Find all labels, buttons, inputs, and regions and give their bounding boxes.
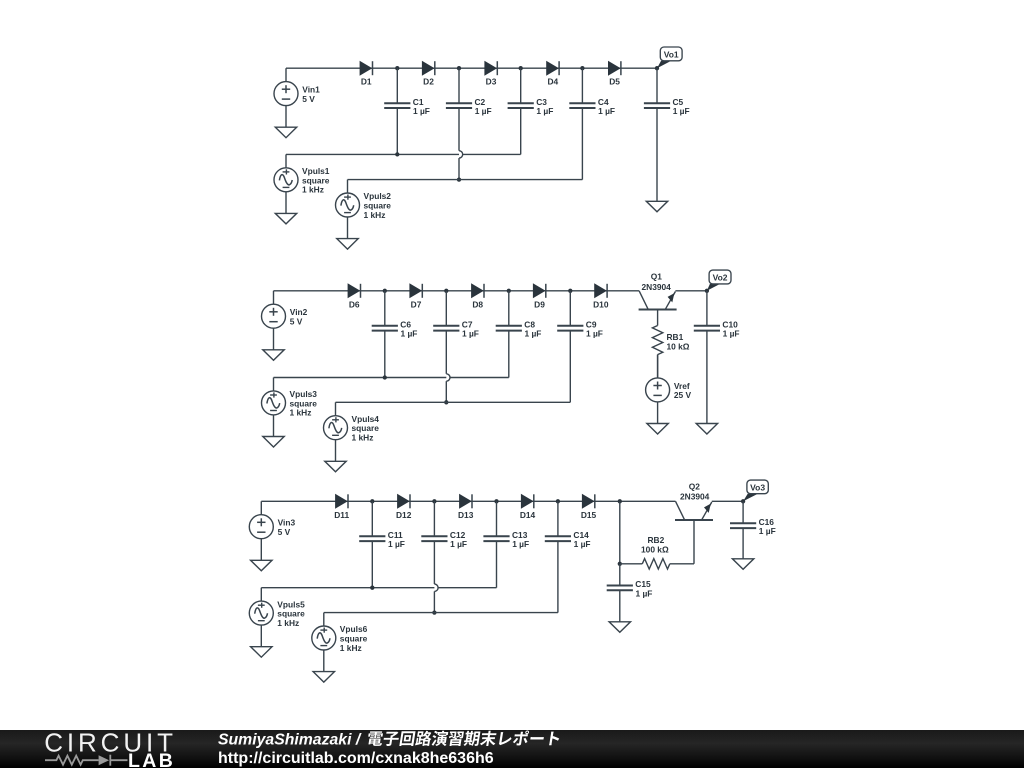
svg-text:1 kHz: 1 kHz: [340, 643, 362, 653]
svg-text:D10: D10: [593, 299, 609, 309]
svg-text:D7: D7: [411, 299, 422, 309]
svg-text:RB2: RB2: [648, 535, 665, 545]
svg-text:2N3904: 2N3904: [680, 491, 710, 501]
svg-text:http://circuitlab.com/cxnak8he: http://circuitlab.com/cxnak8he636h6: [218, 750, 494, 767]
svg-text:1 µF: 1 µF: [759, 526, 776, 536]
svg-text:10 kΩ: 10 kΩ: [667, 342, 690, 352]
svg-text:1 µF: 1 µF: [574, 539, 591, 549]
svg-text:1 kHz: 1 kHz: [364, 210, 386, 220]
svg-text:5 V: 5 V: [278, 527, 291, 537]
svg-text:1 µF: 1 µF: [462, 329, 479, 339]
svg-text:Vo2: Vo2: [713, 273, 728, 283]
svg-text:D5: D5: [609, 77, 620, 87]
svg-text:SumiyaShimazaki /: SumiyaShimazaki /: [218, 732, 362, 749]
svg-text:D14: D14: [520, 510, 536, 520]
svg-text:1 µF: 1 µF: [636, 588, 653, 598]
svg-text:LAB: LAB: [128, 750, 175, 768]
svg-text:1 µF: 1 µF: [536, 106, 553, 116]
svg-text:1 µF: 1 µF: [673, 106, 690, 116]
svg-text:100 kΩ: 100 kΩ: [641, 545, 669, 555]
svg-text:1 kHz: 1 kHz: [277, 618, 299, 628]
svg-text:Vo1: Vo1: [664, 49, 679, 59]
svg-text:1 µF: 1 µF: [388, 539, 405, 549]
svg-text:1 µF: 1 µF: [586, 329, 603, 339]
svg-text:D1: D1: [361, 77, 372, 87]
svg-text:25 V: 25 V: [674, 390, 692, 400]
svg-text:D9: D9: [534, 299, 545, 309]
svg-text:1 kHz: 1 kHz: [290, 408, 312, 418]
svg-text:1 kHz: 1 kHz: [302, 185, 324, 195]
svg-text:Q1: Q1: [651, 272, 663, 282]
svg-text:1 µF: 1 µF: [413, 106, 430, 116]
svg-text:D2: D2: [423, 77, 434, 87]
svg-text:D3: D3: [486, 77, 497, 87]
svg-text:1 µF: 1 µF: [512, 539, 529, 549]
svg-text:D4: D4: [547, 77, 558, 87]
svg-text:1 µF: 1 µF: [598, 106, 615, 116]
svg-text:Q2: Q2: [689, 481, 701, 491]
svg-text:1 µF: 1 µF: [401, 329, 418, 339]
svg-text:D12: D12: [396, 510, 412, 520]
svg-text:D11: D11: [334, 510, 349, 520]
svg-text:2N3904: 2N3904: [642, 282, 672, 292]
svg-text:D8: D8: [472, 299, 483, 309]
svg-text:1 kHz: 1 kHz: [352, 433, 374, 443]
svg-text:1 µF: 1 µF: [723, 329, 740, 339]
svg-text:D15: D15: [581, 510, 597, 520]
svg-text:1 µF: 1 µF: [450, 539, 467, 549]
svg-text:5 V: 5 V: [302, 94, 315, 104]
svg-text:1 µF: 1 µF: [525, 329, 542, 339]
svg-text:Vo3: Vo3: [750, 482, 765, 492]
svg-text:5 V: 5 V: [290, 317, 303, 327]
svg-text:D13: D13: [458, 510, 474, 520]
svg-text:D6: D6: [349, 299, 360, 309]
svg-text:1 µF: 1 µF: [475, 106, 492, 116]
